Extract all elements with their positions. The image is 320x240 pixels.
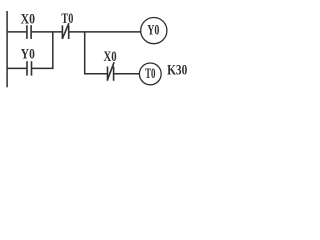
wire rung2 Y0 to branch bbox=[32, 67, 53, 69]
svg-text:T0: T0 bbox=[145, 66, 155, 82]
wire branch rung3 vertical bbox=[84, 32, 86, 75]
coil Y0 circle bbox=[141, 18, 167, 44]
contact X0 (NC) bbox=[107, 62, 114, 81]
wire branch seal-in vertical bbox=[52, 32, 54, 69]
wire rung1 X0 to T0 bbox=[32, 31, 62, 33]
wire rung2 rail to Y0 bbox=[7, 67, 27, 69]
contact Y0 (NO) bbox=[27, 61, 32, 75]
svg-text:Y0: Y0 bbox=[147, 23, 159, 39]
wire rung3 branch to X0 bbox=[84, 73, 107, 75]
wire rung3 X0 to coil T0 bbox=[114, 73, 139, 75]
svg-text:T0: T0 bbox=[61, 11, 73, 27]
svg-text:Y0: Y0 bbox=[21, 46, 35, 62]
wire rung1 T0 to coil Y0 bbox=[69, 31, 140, 33]
ladder logic diagram bbox=[0, 0, 196, 93]
svg-text:K30: K30 bbox=[167, 63, 187, 79]
svg-text:X0: X0 bbox=[21, 12, 35, 28]
left power rail bbox=[6, 11, 8, 87]
svg-text:X0: X0 bbox=[104, 49, 117, 65]
contact X0 (NO) bbox=[27, 25, 31, 39]
coil T0 circle bbox=[139, 63, 161, 85]
wire rung1 rail to X0 bbox=[7, 31, 27, 33]
contact T0 (NC) bbox=[62, 23, 69, 39]
